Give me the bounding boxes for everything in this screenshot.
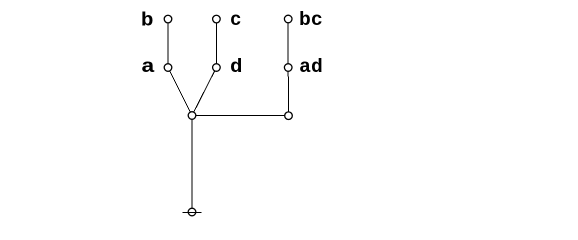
- wire bc-ad: [287, 19, 289, 67]
- node b: [164, 15, 172, 23]
- wire b-a: [167, 19, 169, 67]
- svg-text:bc: bc: [299, 9, 323, 31]
- root tick wire: [182, 211, 201, 213]
- wire center-root: [191, 116, 193, 213]
- svg-text:d: d: [230, 56, 243, 78]
- wire c-d: [215, 19, 217, 67]
- wire ad-right: [287, 68, 289, 116]
- wire a-center: [168, 68, 192, 116]
- node bc: [284, 15, 292, 23]
- node a: [164, 64, 172, 72]
- node ad: [284, 64, 292, 72]
- svg-text:c: c: [230, 9, 242, 31]
- node root: [188, 208, 196, 216]
- svg-text:ad: ad: [299, 56, 323, 78]
- svg-text:a: a: [141, 56, 155, 78]
- node d: [213, 64, 221, 72]
- node c: [213, 15, 221, 23]
- wire d-center: [192, 68, 216, 116]
- svg-text:b: b: [141, 10, 154, 32]
- node right junction: [285, 112, 293, 120]
- wire center-right: [192, 115, 289, 117]
- node center junction: [188, 112, 196, 120]
